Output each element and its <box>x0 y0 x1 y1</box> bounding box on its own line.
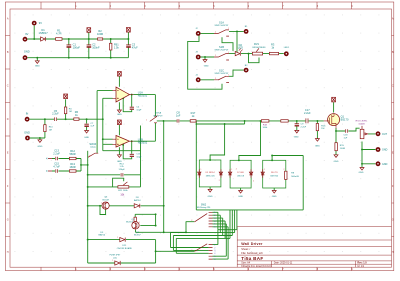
svg-text:1M: 1M <box>49 129 52 131</box>
svg-text:S1A: S1A <box>219 20 224 24</box>
svg-text:1uF: 1uF <box>176 114 181 118</box>
svg-text:C: C <box>7 85 9 88</box>
svg-text:160R: 160R <box>69 165 75 169</box>
svg-text:560R: 560R <box>69 152 75 156</box>
svg-text:9V: 9V <box>25 32 28 36</box>
svg-text:Id: 1/1: Id: 1/1 <box>357 265 364 268</box>
svg-text:2: 2 <box>214 247 215 249</box>
svg-text:D7 LED: D7 LED <box>237 172 245 174</box>
svg-text:2: 2 <box>214 215 215 217</box>
svg-text:GND: GND <box>208 196 213 198</box>
svg-text:SW-R: SW-R <box>89 142 96 146</box>
svg-text:BC547: BC547 <box>102 200 109 202</box>
svg-text:G: G <box>392 219 394 222</box>
svg-text:2: 2 <box>215 55 216 57</box>
svg-text:File: baf.kicad_sch: File: baf.kicad_sch <box>241 251 263 255</box>
svg-text:100R: 100R <box>97 32 103 36</box>
svg-text:SW-DPDT: SW-DPDT <box>153 115 163 117</box>
svg-text:2: 2 <box>253 181 254 183</box>
svg-text:120pF: 120pF <box>118 169 125 171</box>
svg-text:Wall Driver: Wall Driver <box>241 242 263 246</box>
svg-text:Sheet: /: Sheet: / <box>241 247 250 251</box>
svg-text:2: 2 <box>89 156 90 158</box>
svg-text:GND: GND <box>24 49 30 53</box>
svg-text:1: 1 <box>231 169 232 171</box>
svg-text:10pF: 10pF <box>136 157 142 159</box>
svg-text:9V: 9V <box>39 21 42 25</box>
svg-text:4.7R: 4.7R <box>56 31 62 35</box>
svg-text:ON/OFF BOARD: ON/OFF BOARD <box>117 247 133 250</box>
svg-text:G: G <box>7 219 9 222</box>
svg-text:NE5532: NE5532 <box>138 94 148 98</box>
svg-text:5: 5 <box>214 256 215 258</box>
svg-text:1: 1 <box>117 237 118 239</box>
svg-text:D5 1N914: D5 1N914 <box>206 172 216 174</box>
svg-text:1: 1 <box>214 244 215 246</box>
svg-text:D: D <box>7 118 9 121</box>
svg-text:2: 2 <box>219 180 220 182</box>
svg-text:2.2uF: 2.2uF <box>52 112 59 116</box>
svg-text:2.2uF: 2.2uF <box>53 152 60 156</box>
svg-text:1: 1 <box>101 203 102 205</box>
svg-text:56R R20: 56R R20 <box>270 176 279 178</box>
svg-text:2: 2 <box>215 78 216 80</box>
svg-text:H: H <box>392 251 394 254</box>
svg-text:IN: IN <box>26 112 29 116</box>
svg-text:1: 1 <box>157 115 158 117</box>
svg-text:1: 1 <box>139 222 140 224</box>
svg-text:Date: 2025-01-11: Date: 2025-01-11 <box>274 262 293 265</box>
svg-text:1.5k: 1.5k <box>114 46 120 50</box>
svg-text:2: 2 <box>146 119 147 121</box>
svg-text:BC557: BC557 <box>134 235 141 237</box>
svg-text:2: 2 <box>215 31 216 33</box>
svg-text:GND: GND <box>84 137 89 139</box>
svg-text:2.2uF: 2.2uF <box>304 111 311 115</box>
svg-text:1: 1 <box>201 169 202 171</box>
svg-text:S1B: S1B <box>219 45 224 49</box>
svg-text:rotary: rotary <box>90 146 96 149</box>
svg-text:BRIGHTNESS: BRIGHTNESS <box>252 47 266 49</box>
svg-text:RV2 LEVEL: RV2 LEVEL <box>356 121 368 123</box>
svg-text:Ti5a BAF: Ti5a BAF <box>241 256 263 261</box>
svg-text:1M: 1M <box>69 111 72 113</box>
svg-text:D10 TS: D10 TS <box>271 172 278 174</box>
svg-text:10pF: 10pF <box>136 109 142 111</box>
svg-text:GND: GND <box>35 66 40 68</box>
svg-text:LED: LED <box>238 46 243 50</box>
svg-text:6: 6 <box>214 259 215 261</box>
svg-text:1: 1 <box>264 169 265 171</box>
svg-text:OUT: OUT <box>382 133 388 136</box>
svg-text:SWITCH-DPDT: SWITCH-DPDT <box>215 50 230 52</box>
svg-text:1: 1 <box>214 212 215 214</box>
svg-text:NE5532: NE5532 <box>138 140 148 144</box>
svg-text:SWITCH-DPDT: SWITCH-DPDT <box>215 73 230 75</box>
svg-text:1N5817: 1N5817 <box>39 31 49 35</box>
svg-text:3: 3 <box>214 250 215 252</box>
svg-text:LED1: LED1 <box>284 47 290 49</box>
svg-text:100kB: 100kB <box>358 124 365 126</box>
svg-text:GND: GND <box>37 146 42 148</box>
svg-text:1uF: 1uF <box>90 126 94 128</box>
svg-text:2: 2 <box>284 169 285 171</box>
svg-text:GND: GND <box>204 66 209 68</box>
svg-text:4.7uF: 4.7uF <box>53 165 60 169</box>
svg-text:2: 2 <box>236 169 237 171</box>
svg-text:560mW: 560mW <box>291 176 299 178</box>
svg-text:1uF: 1uF <box>344 138 348 140</box>
svg-text:H: H <box>7 251 9 254</box>
svg-text:1M: 1M <box>321 128 324 130</box>
svg-text:GND: GND <box>382 149 388 152</box>
svg-text:2.2uF: 2.2uF <box>301 126 307 128</box>
svg-text:4: 4 <box>214 221 215 223</box>
svg-text:1: 1 <box>228 52 229 54</box>
svg-text:BC557: BC557 <box>126 222 133 224</box>
svg-text:100nF: 100nF <box>92 46 100 50</box>
svg-text:GND: GND <box>294 137 299 139</box>
svg-text:PUSH 1P8T: PUSH 1P8T <box>109 255 121 257</box>
svg-text:LED D8: LED D8 <box>237 176 245 178</box>
svg-text:5: 5 <box>214 224 215 226</box>
svg-text:GND: GND <box>272 196 277 198</box>
svg-text:1: 1 <box>228 28 229 30</box>
svg-text:SWITCH-DPDT: SWITCH-DPDT <box>215 25 230 27</box>
svg-text:GND: GND <box>334 161 339 163</box>
svg-text:GND: GND <box>117 114 122 116</box>
svg-text:1: 1 <box>112 260 113 262</box>
svg-text:BAT54: BAT54 <box>99 234 106 237</box>
svg-text:SW2: SW2 <box>201 204 207 207</box>
svg-text:4: 4 <box>214 253 215 255</box>
svg-text:GND: GND <box>238 196 243 198</box>
svg-text:3: 3 <box>214 218 215 220</box>
svg-text:100uF: 100uF <box>73 46 81 50</box>
svg-text:R21 100k: R21 100k <box>118 190 128 192</box>
svg-text:47uF: 47uF <box>132 46 138 50</box>
svg-text:6: 6 <box>214 227 215 229</box>
svg-text:(15): (15) <box>113 257 117 259</box>
svg-text:SR-Rotary-2P6: SR-Rotary-2P6 <box>197 206 211 209</box>
svg-text:GND: GND <box>382 163 388 166</box>
svg-text:GND: GND <box>315 145 320 147</box>
svg-text:1N914 D6: 1N914 D6 <box>206 176 216 178</box>
svg-text:C: C <box>392 85 394 88</box>
svg-text:GND: GND <box>24 131 30 135</box>
svg-text:S1C: S1C <box>219 68 224 72</box>
svg-text:GND: GND <box>359 172 364 174</box>
svg-text:BS170: BS170 <box>341 117 349 121</box>
svg-text:1: 1 <box>228 75 229 77</box>
svg-text:100R: 100R <box>340 148 346 150</box>
svg-text:SW1A: SW1A <box>155 112 162 115</box>
svg-text:BAT54: BAT54 <box>134 199 141 202</box>
svg-text:KiCad E.D.A. kicad (9.0.0-1): KiCad E.D.A. kicad (9.0.0-1) <box>241 265 271 268</box>
svg-text:RV1: RV1 <box>254 42 260 46</box>
svg-text:D: D <box>392 118 394 121</box>
